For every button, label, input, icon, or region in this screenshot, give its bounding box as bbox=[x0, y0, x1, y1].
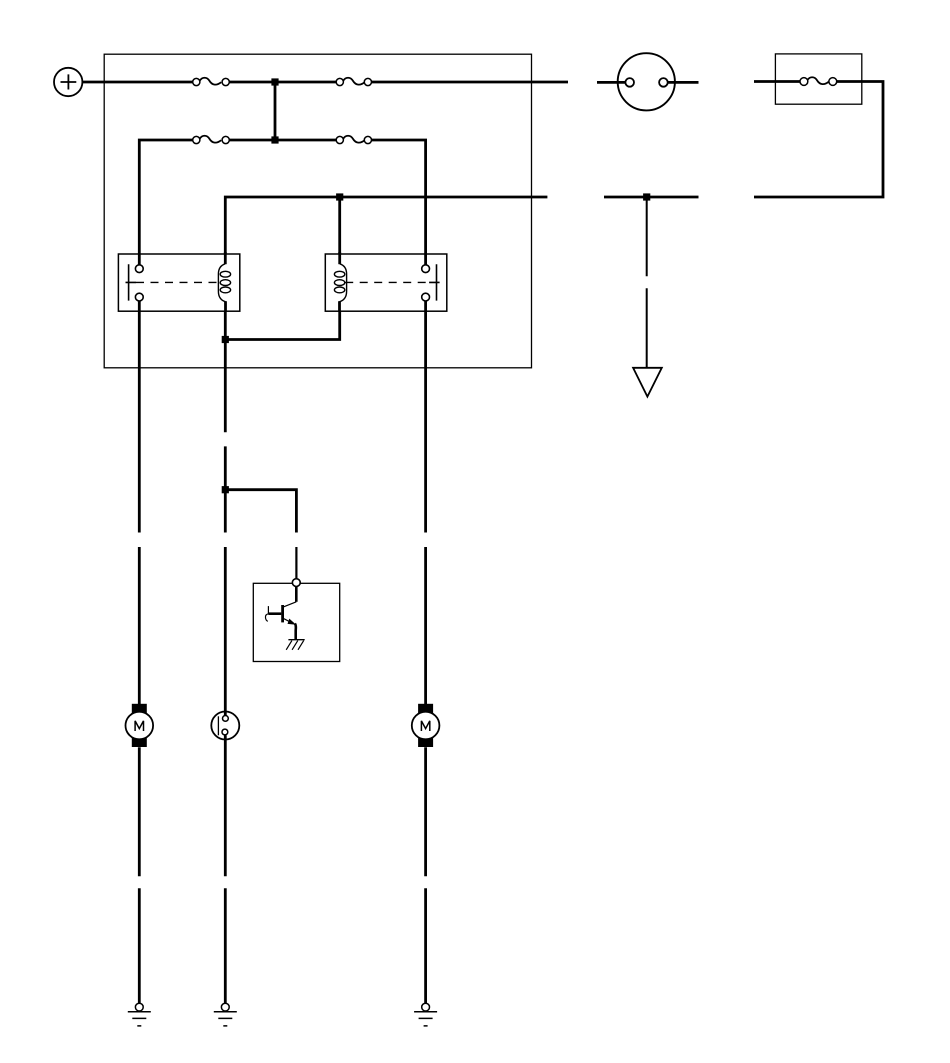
fusible link box bbox=[775, 54, 861, 104]
relay K2 coil stub top bbox=[338, 252, 341, 264]
motor M1 brush top bbox=[132, 704, 147, 713]
wire line A mid bbox=[138, 301, 141, 533]
transistor chassis ground bar bbox=[288, 639, 304, 641]
transistor Q1 emitter wire bbox=[295, 624, 296, 640]
wire branch to transistor lower bbox=[295, 547, 297, 578]
relay K2 coil loop 2 bbox=[334, 280, 344, 286]
wire row3 segment a (coil bus, corner down to relay K1 coil) bbox=[225, 197, 547, 255]
wire row1 segment e (connector right pin out) bbox=[668, 81, 699, 84]
relay K1 dashed link bbox=[136, 281, 220, 283]
battery B+ terminal bbox=[54, 68, 82, 96]
washer pump body bbox=[211, 712, 239, 740]
relay K2 contact lower bbox=[422, 293, 430, 301]
relay K2 armature bar bbox=[429, 264, 440, 300]
motor M2 brush bottom bbox=[418, 738, 433, 747]
fusible link fuse bbox=[800, 77, 837, 85]
motor M1 brush bottom bbox=[132, 738, 147, 747]
relay K1 coil stub top bbox=[224, 252, 227, 264]
relay K2 coil loop 3 bbox=[334, 287, 344, 293]
wire ground drop upper bbox=[646, 197, 648, 276]
relay K2 coil arc bbox=[339, 264, 346, 302]
wire line B mid bbox=[224, 446, 227, 532]
junction dot node (275,140) bbox=[271, 136, 278, 143]
relay K1 coil loop 1 bbox=[220, 271, 230, 277]
ground G3 bbox=[414, 1003, 437, 1026]
wire row2 segment c (to corner down to relay K2 contact) bbox=[371, 140, 426, 265]
relay K1 coil stub bottom bbox=[224, 301, 227, 311]
transistor collector terminal circle bbox=[292, 579, 300, 587]
connector C1 pin left bbox=[625, 78, 634, 87]
wire row1 segment b (F1 to F2 through node) bbox=[229, 81, 337, 84]
wire row3 segment b (ground branch bus) bbox=[604, 196, 699, 199]
wire fusible link to right vertical and back along row3 bbox=[754, 82, 883, 198]
junction dot node (339.7,197) bbox=[336, 193, 343, 200]
motor M1 body bbox=[126, 712, 154, 740]
relay K2 coil stub bottom bbox=[338, 301, 341, 311]
washer pump contact upper bbox=[223, 716, 229, 722]
junction dot node (225.3,339.5) bbox=[222, 336, 229, 343]
wire branch to transistor bbox=[225, 490, 296, 533]
washer pump armature bar bbox=[217, 716, 219, 735]
wire line C bottom lower bbox=[424, 888, 427, 1003]
fuse F2 bbox=[336, 78, 371, 86]
wire row1 segment c (F2 to connector gap) bbox=[371, 81, 568, 84]
transistor chassis ground hatches bbox=[286, 641, 304, 650]
transistor Q1 emitter arrowhead bbox=[288, 619, 297, 625]
wire row2 segment b bbox=[229, 139, 337, 142]
wire line A bottom lower bbox=[138, 888, 141, 1003]
wire line B bottom upper bbox=[224, 735, 227, 876]
wire line C bottom upper bbox=[424, 747, 427, 876]
transistor Q1 base lead bbox=[268, 612, 281, 615]
transistor Q1 base lead stub up bbox=[267, 606, 269, 614]
wire line B upper (coil bottom down) bbox=[224, 311, 227, 432]
relay K1 contact lower bbox=[135, 293, 143, 301]
relay K1 armature bar bbox=[126, 264, 137, 300]
transistor Q1 collector lead vertical bbox=[295, 586, 298, 601]
wire relay K2 coil feed bbox=[338, 197, 341, 255]
wire row1 segment d (into connector left pin) bbox=[597, 81, 626, 84]
relay K2 contact upper bbox=[422, 265, 430, 273]
motor M2 brush top bbox=[418, 704, 433, 713]
junction dot node (646.7,197) bbox=[643, 193, 650, 200]
wire row2 segment a (corner to fuse F3) bbox=[139, 140, 193, 265]
transistor Q1 base lead hook bbox=[265, 614, 268, 622]
relay K1 coil loop 2 bbox=[220, 280, 230, 286]
junction dot node (275,82) bbox=[271, 78, 278, 85]
transistor box bbox=[253, 583, 339, 661]
transistor Q1 collector lead diagonal bbox=[284, 602, 297, 607]
connector C1 pin right bbox=[659, 78, 668, 87]
wire ground drop lower bbox=[646, 288, 648, 367]
transistor Q1 emitter diagonal bbox=[284, 619, 290, 622]
wire row1 segment f (to fusible link box) bbox=[754, 80, 800, 83]
wire relay K2 coil bottom to junction bbox=[225, 311, 339, 339]
fuse F4 bbox=[336, 136, 371, 144]
junction dot node (225.3,489.7) bbox=[222, 486, 229, 493]
control unit outer box bbox=[104, 54, 531, 368]
wire line B bottom lower bbox=[224, 888, 227, 1003]
relay K2 box bbox=[325, 254, 447, 311]
node row1/row2 tie vertical wire bbox=[274, 82, 277, 140]
connector C1 body bbox=[618, 53, 675, 110]
transistor Q1 base bar bbox=[281, 605, 284, 622]
wire line B lower bbox=[224, 547, 227, 716]
wire line C lower bbox=[424, 547, 427, 704]
motor M1 label M bbox=[135, 721, 143, 731]
fuse F1 bbox=[193, 78, 230, 86]
motor M2 body bbox=[412, 712, 440, 740]
relay K1 coil arc bbox=[218, 264, 225, 302]
ground G2 bbox=[214, 1003, 237, 1026]
wire line A bottom upper bbox=[138, 747, 141, 876]
wire line A lower bbox=[138, 547, 141, 704]
wire line C mid bbox=[424, 301, 427, 533]
wire row1 segment a (battery to fuse F1) bbox=[82, 81, 193, 84]
fuse F3 bbox=[193, 136, 230, 144]
ground arrow triangle bbox=[633, 368, 662, 397]
ground G1 bbox=[128, 1003, 151, 1026]
washer pump contact lower bbox=[222, 729, 228, 735]
relay K1 contact upper bbox=[135, 265, 143, 273]
relay K1 coil loop 3 bbox=[220, 287, 230, 293]
relay K2 coil loop 1 bbox=[334, 271, 344, 277]
motor M2 label M bbox=[421, 721, 429, 731]
relay K2 dashed link bbox=[345, 281, 429, 283]
relay K1 box bbox=[118, 254, 239, 311]
